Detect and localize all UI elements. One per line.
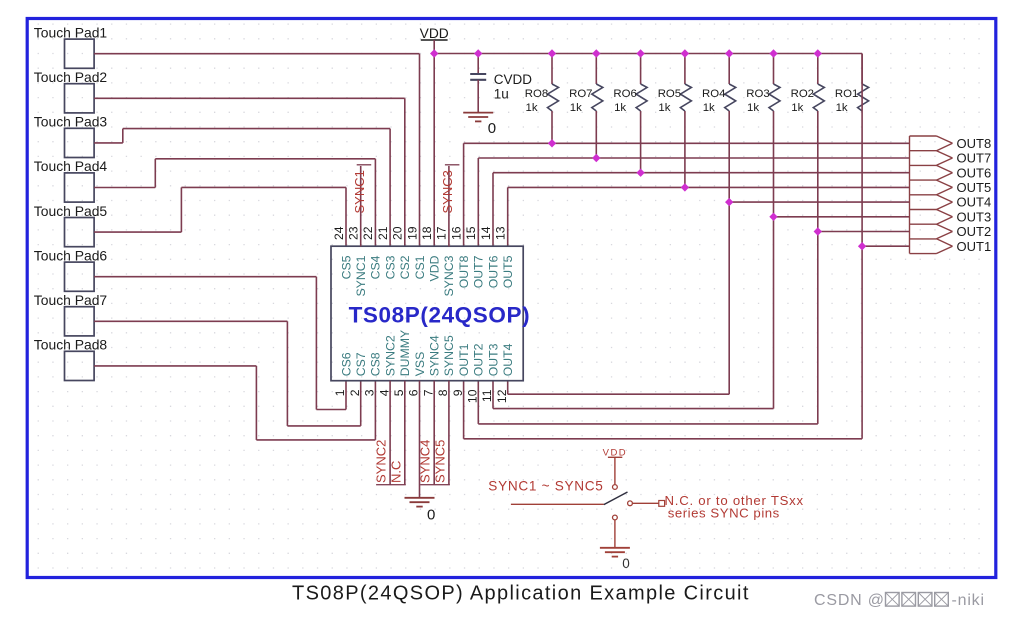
svg-text:OUT3: OUT3 (486, 343, 500, 376)
svg-text:1k: 1k (526, 102, 538, 114)
svg-text:RO1: RO1 (835, 88, 858, 100)
svg-text:1k: 1k (570, 102, 582, 114)
svg-text:RO4: RO4 (702, 88, 725, 100)
svg-text:CS8: CS8 (369, 352, 383, 376)
svg-text:Touch Pad8: Touch Pad8 (34, 337, 108, 353)
svg-text:1k: 1k (791, 102, 803, 114)
svg-text:SYNC5: SYNC5 (432, 440, 447, 483)
svg-text:Touch Pad1: Touch Pad1 (34, 24, 108, 40)
svg-text:RO5: RO5 (658, 88, 681, 100)
svg-text:OUT2: OUT2 (957, 224, 992, 239)
svg-text:0: 0 (488, 120, 496, 137)
svg-text:SYNC5: SYNC5 (442, 335, 456, 376)
svg-text:12: 12 (495, 389, 509, 403)
svg-text:OUT5: OUT5 (501, 255, 515, 288)
svg-text:N.C: N.C (388, 461, 403, 483)
svg-text:0: 0 (427, 507, 435, 524)
svg-text:Touch Pad7: Touch Pad7 (34, 292, 108, 308)
svg-text:CS2: CS2 (398, 255, 412, 279)
svg-text:series SYNC pins: series SYNC pins (668, 506, 780, 521)
svg-text:1k: 1k (747, 102, 759, 114)
svg-text:4: 4 (377, 389, 391, 396)
svg-text:SYNC1: SYNC1 (354, 255, 368, 296)
svg-text:CS3: CS3 (383, 255, 397, 279)
svg-text:OUT6: OUT6 (486, 255, 500, 288)
svg-text:OUT6: OUT6 (957, 165, 992, 180)
svg-text:23: 23 (347, 226, 361, 240)
svg-text:OUT8: OUT8 (957, 136, 992, 151)
svg-text:CS7: CS7 (354, 352, 368, 376)
svg-text:OUT4: OUT4 (501, 343, 515, 376)
svg-text:OUT2: OUT2 (472, 343, 486, 376)
svg-text:8: 8 (436, 389, 450, 396)
svg-text:VDD: VDD (420, 26, 449, 41)
svg-text:5: 5 (392, 389, 406, 396)
svg-text:OUT4: OUT4 (957, 195, 992, 210)
svg-text:6: 6 (407, 389, 421, 396)
svg-text:SYNC4: SYNC4 (428, 335, 442, 376)
svg-text:17: 17 (435, 226, 449, 240)
svg-text:18: 18 (420, 226, 434, 240)
svg-text:CS6: CS6 (339, 352, 353, 376)
svg-text:OUT1: OUT1 (457, 343, 471, 376)
svg-text:SYNC2: SYNC2 (374, 440, 389, 483)
svg-text:CS4: CS4 (369, 255, 383, 279)
svg-text:RO6: RO6 (613, 88, 636, 100)
svg-text:Touch Pad5: Touch Pad5 (34, 203, 108, 219)
svg-text:SYNC3: SYNC3 (442, 255, 456, 296)
svg-text:CSDN @: CSDN @ (814, 592, 885, 609)
svg-text:1k: 1k (703, 102, 715, 114)
svg-text:RO2: RO2 (791, 88, 814, 100)
svg-text:16: 16 (449, 226, 463, 240)
svg-text:9: 9 (451, 389, 465, 396)
svg-text:CS5: CS5 (339, 255, 353, 279)
svg-text:7: 7 (421, 389, 435, 396)
svg-text:20: 20 (391, 226, 405, 240)
svg-text:-niki: -niki (952, 592, 985, 609)
svg-text:15: 15 (464, 226, 478, 240)
svg-text:OUT7: OUT7 (472, 255, 486, 288)
svg-text:RO8: RO8 (525, 88, 548, 100)
svg-text:1: 1 (333, 389, 347, 396)
svg-text:24: 24 (332, 226, 346, 240)
svg-text:Touch Pad6: Touch Pad6 (34, 247, 108, 263)
svg-text:OUT1: OUT1 (957, 239, 992, 254)
svg-text:19: 19 (405, 226, 419, 240)
svg-text:11: 11 (480, 389, 494, 402)
svg-text:0: 0 (622, 556, 630, 571)
svg-text:13: 13 (494, 226, 508, 240)
svg-text:VSS: VSS (413, 352, 427, 377)
svg-text:OUT8: OUT8 (457, 255, 471, 288)
svg-text:3: 3 (363, 389, 377, 396)
svg-text:VDD: VDD (428, 255, 442, 281)
svg-text:Touch Pad4: Touch Pad4 (34, 158, 108, 174)
svg-text:CVDD: CVDD (494, 72, 533, 87)
svg-text:DUMMY: DUMMY (398, 330, 412, 376)
svg-text:OUT7: OUT7 (957, 151, 992, 166)
svg-text:1k: 1k (836, 102, 848, 114)
svg-text:OUT3: OUT3 (957, 209, 992, 224)
svg-text:1u: 1u (494, 87, 509, 102)
svg-text:1k: 1k (658, 102, 670, 114)
svg-text:2: 2 (348, 389, 362, 396)
svg-text:21: 21 (376, 226, 390, 240)
svg-text:RO3: RO3 (746, 88, 769, 100)
svg-text:1k: 1k (614, 102, 626, 114)
svg-text:10: 10 (466, 389, 480, 403)
svg-text:SYNC1 ~ SYNC5: SYNC1 ~ SYNC5 (488, 479, 603, 494)
svg-text:22: 22 (361, 226, 375, 240)
svg-text:SYNC2: SYNC2 (383, 335, 397, 376)
svg-text:14: 14 (479, 226, 493, 240)
svg-text:CS1: CS1 (413, 255, 427, 279)
svg-text:TS08P(24QSOP) Application Exam: TS08P(24QSOP) Application Example Circui… (292, 583, 750, 605)
svg-text:Touch Pad2: Touch Pad2 (34, 69, 108, 85)
svg-text:SYNC1: SYNC1 (352, 170, 367, 213)
svg-text:SYNC3: SYNC3 (440, 170, 455, 213)
svg-text:Touch Pad3: Touch Pad3 (34, 114, 108, 130)
svg-text:RO7: RO7 (569, 88, 592, 100)
svg-text:TS08P(24QSOP): TS08P(24QSOP) (349, 303, 531, 328)
svg-text:OUT5: OUT5 (957, 180, 992, 195)
